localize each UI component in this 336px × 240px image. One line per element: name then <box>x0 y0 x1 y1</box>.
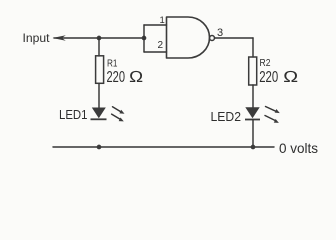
wire R1 from input rail <box>98 38 100 56</box>
nand gate output bubble <box>210 36 215 41</box>
svg-text:LED2: LED2 <box>211 109 242 124</box>
svg-text:R2: R2 <box>260 57 271 69</box>
node junction input/R1 <box>97 36 102 41</box>
wire R2 to LED2 <box>252 85 254 108</box>
LED1 cathode bar <box>91 118 107 120</box>
resistor R1 <box>96 56 104 84</box>
LED2 cathode bar <box>245 119 260 121</box>
wire gate output horizontal <box>215 37 254 39</box>
LED1 diode triangle <box>92 108 106 119</box>
svg-text:220: 220 <box>259 69 278 86</box>
node junction gate inputs <box>142 36 147 41</box>
wire R1 to LED1 <box>98 83 100 108</box>
LED1 emission arrow upper <box>113 107 125 114</box>
svg-text:LED1: LED1 <box>59 107 88 122</box>
svg-text:2: 2 <box>158 40 164 51</box>
svg-text:3: 3 <box>217 27 223 39</box>
LED2 diode triangle <box>245 107 259 118</box>
wire gate input tie vertical <box>143 25 145 52</box>
svg-text:R1: R1 <box>107 58 118 70</box>
svg-text:0 volts: 0 volts <box>279 140 318 156</box>
wire LED2 to 0V rail <box>252 120 254 148</box>
LED1 emission arrow lower <box>112 114 124 121</box>
wire input rail <box>54 37 144 39</box>
LED2 emission arrow lower <box>265 116 279 123</box>
svg-text:1: 1 <box>160 15 165 26</box>
node junction LED1/0V <box>97 145 102 150</box>
wire down to R2 <box>252 38 254 57</box>
node junction LED2/0V <box>251 145 256 150</box>
LED2 emission arrow upper <box>266 107 280 114</box>
wire 0V rail <box>53 146 274 148</box>
wire pin2 stub <box>144 51 167 53</box>
svg-text:Ω: Ω <box>283 69 298 86</box>
svg-text:Input: Input <box>23 31 51 45</box>
svg-text:220: 220 <box>107 69 126 86</box>
resistor R2 <box>249 57 257 85</box>
wire pin1 stub <box>144 24 167 26</box>
nand gate U1 body <box>167 17 210 58</box>
input arrowhead <box>53 35 66 41</box>
svg-text:Ω: Ω <box>129 69 143 86</box>
